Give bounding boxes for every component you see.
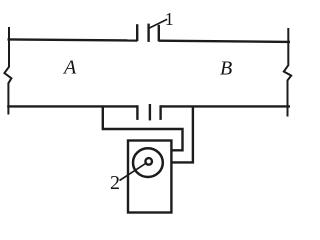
wire branch inner wall (duct wall down into unit) (103, 106, 183, 150)
svg-text:1: 1 (165, 9, 174, 29)
node flexible-connector tick right (top gap) (158, 25, 160, 42)
wire bottom duct wall left segment (7, 105, 137, 107)
wire leader line to label 1 (149, 19, 167, 28)
component fan impeller outer circle (133, 148, 163, 177)
node flexible-connector tick right (bottom gap) (159, 105, 161, 120)
component fan unit box 2 (128, 141, 171, 213)
component fan hub inner circle (145, 158, 152, 165)
wire left duct edge with break symbol (4, 27, 11, 115)
svg-text:A: A (62, 57, 77, 79)
svg-text:2: 2 (110, 172, 120, 194)
wire bottom duct wall right segment (161, 105, 290, 107)
node flexible-connector tick left (top gap) (136, 24, 138, 41)
svg-text:B: B (220, 58, 232, 80)
wire leader line to label 2 (120, 164, 146, 181)
node flexible-connector tick middle (top gap) (147, 24, 149, 42)
wire top duct wall right segment (159, 41, 290, 42)
node flexible-connector tick middle (bottom gap) (149, 104, 151, 120)
wire branch outer wall (171, 106, 193, 162)
wire right duct edge with break symbol (284, 28, 291, 117)
wire top duct wall left segment (8, 39, 138, 40)
node flexible-connector tick left (bottom gap) (136, 105, 138, 120)
